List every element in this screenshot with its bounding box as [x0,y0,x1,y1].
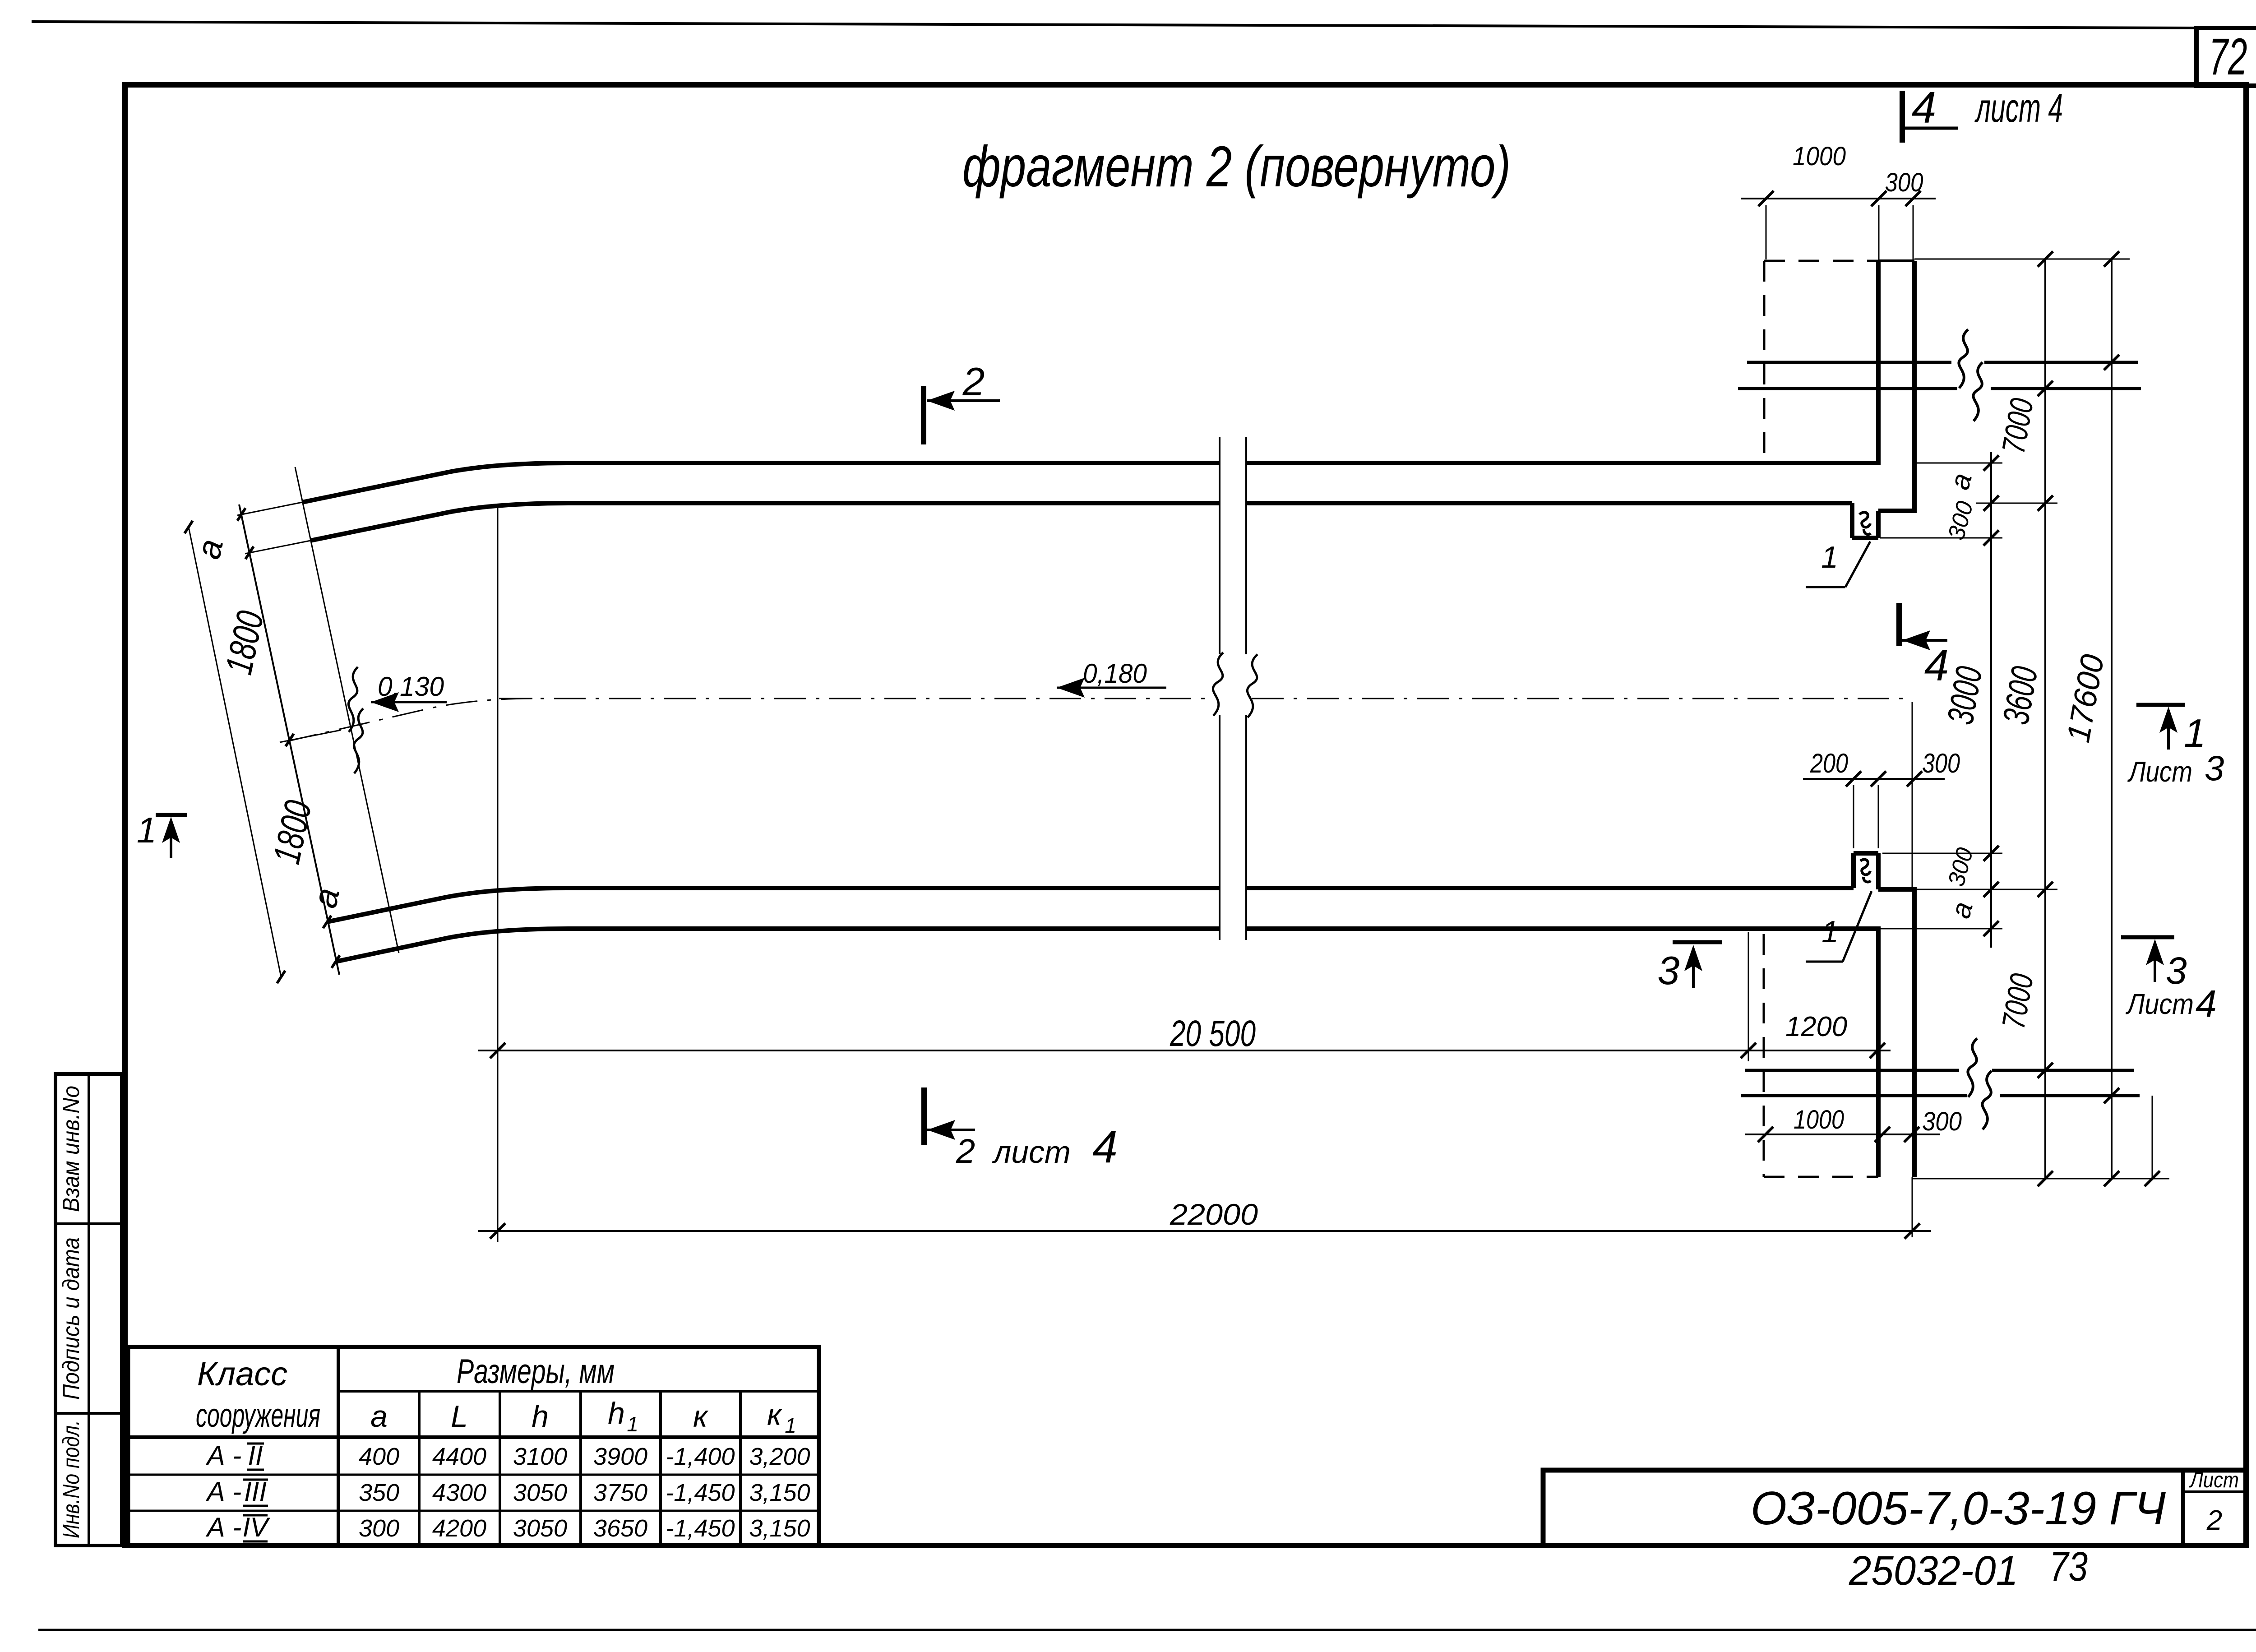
svg-text:1: 1 [137,810,157,850]
svg-text:Лист: Лист [2125,988,2194,1020]
bottom connector for dims B,C [1912,1178,2169,1180]
section marker 1 left [156,813,187,817]
svg-text:к: к [767,1397,783,1432]
svg-text:4300: 4300 [432,1479,486,1506]
channel break line left [1219,437,1220,654]
svg-text:300: 300 [359,1515,399,1542]
top transverse wall line 1 [1747,361,1951,364]
svg-text:3,150: 3,150 [749,1479,810,1506]
svg-text:3050: 3050 [513,1479,567,1506]
dashed vertical line top [1763,261,1766,453]
svg-text:73: 73 [2049,1544,2088,1590]
section marker 3 mid [1673,940,1722,944]
vertical dimension line C [2111,259,2113,1179]
svg-text:h: h [608,1396,625,1430]
connector inner top to dims A,B [1976,503,2057,504]
table subheader bottom divider [128,1435,819,1439]
svg-text:200: 200 [1810,748,1848,778]
svg-text:Инв.No подл.: Инв.No подл. [58,1420,84,1538]
connector top wall outer to dim A [1914,463,2002,464]
svg-text:-1,400: -1,400 [666,1443,735,1470]
section marker 2 top [921,386,926,444]
svg-text:1: 1 [1821,540,1838,574]
svg-text:4: 4 [1924,640,1949,690]
svg-text:Взам инв.No: Взам инв.No [58,1086,84,1212]
bottom wall outer line (bend part) [336,929,1220,962]
dashed horizontal line top [1764,260,1878,262]
dashed vertical line bottom [1763,934,1765,1177]
svg-text:II: II [248,1440,263,1471]
svg-text:3,150: 3,150 [749,1515,810,1542]
right wall left edge lower segment [1876,926,1881,1177]
top wall outer line (straight part) [1246,461,1878,465]
extension wall right edge long [1912,702,1913,887]
list cell divider [2183,1490,2246,1493]
top wall inner thin extension [245,541,310,554]
top wall inner line (straight part) [1246,501,1852,505]
table header row divider (sizes) [338,1390,819,1393]
top expansion joint notch [1850,503,1854,538]
svg-text:20 500: 20 500 [1170,1013,1256,1054]
right wall left edge upper segment [1876,261,1881,465]
svg-text:22000: 22000 [1170,1198,1258,1231]
svg-text:300: 300 [1922,1107,1962,1136]
svg-text:3100: 3100 [513,1443,567,1470]
svg-text:IV: IV [243,1512,271,1542]
svg-text:h: h [532,1399,549,1434]
title block box [1543,1470,2246,1546]
svg-text:фрагмент 2 (повернуто): фрагмент 2 (повернуто) [962,134,1511,199]
vertical dimension line A [1990,452,1992,948]
bend cut line through top wall ends [295,467,399,953]
svg-text:3: 3 [2166,949,2187,992]
svg-text:-1,450: -1,450 [666,1515,735,1542]
right wall top cap [1878,259,1914,262]
title block list divider [2181,1470,2185,1546]
bend dimension line (a,1800,1800,a) [239,504,339,975]
svg-text:3: 3 [1658,948,1680,993]
svg-text:3,200: 3,200 [749,1443,810,1470]
svg-text:1200: 1200 [1785,1011,1847,1042]
svg-text:3: 3 [2205,748,2224,788]
svg-text:1000: 1000 [1793,142,1846,171]
left long extension line [497,504,499,1242]
dashed horizontal line bottom [1764,1176,1878,1178]
table column dividers [418,1391,421,1546]
bottom wall inner line (bend part) [327,888,1220,922]
top wall inner line (bend part) [310,503,1220,541]
connector bottom wall outer to dim A [1878,928,2002,930]
stamp cell divider 1 [55,1222,122,1225]
svg-text:-1,450: -1,450 [666,1479,735,1506]
bottom notch sealant squiggle [1860,859,1871,882]
svg-text:4: 4 [1092,1122,1118,1172]
extension line 1200 left [1748,932,1749,1061]
svg-text:4200: 4200 [432,1515,486,1542]
svg-text:А -: А - [206,1440,242,1471]
marker 3 sheet 4 [2121,935,2174,939]
table class column divider [337,1347,340,1546]
svg-text:1: 1 [785,1414,796,1437]
centerline break squiggles [348,667,358,732]
svg-text:400: 400 [359,1443,399,1470]
svg-text:сооружения: сооружения [196,1397,320,1434]
svg-text:2: 2 [962,359,985,404]
connector inner bottom to dims A,B [1916,889,2057,890]
svg-text:72: 72 [2209,28,2247,86]
bend overall line with end ticks [189,527,281,977]
section marker 4 top [1900,91,1905,143]
extension notch mid [1878,785,1879,848]
centerline extension to bend dim [280,730,341,742]
marker 1 sheet 3 [2136,703,2185,707]
svg-text:4: 4 [2196,982,2217,1025]
channel break line right [1245,437,1247,654]
top wall outer line (bend part) [302,463,1220,502]
bottom wall inner line (straight part) [1246,886,1854,890]
svg-text:350: 350 [359,1479,399,1506]
svg-text:a: a [370,1399,388,1434]
svg-text:3900: 3900 [593,1443,647,1470]
top transverse wall line 2 [1738,387,1957,390]
svg-text:25032-01: 25032-01 [1849,1548,2018,1594]
svg-text:Лист: Лист [2127,755,2192,788]
centerline bend part (dash-dot) [289,699,532,741]
svg-text:2: 2 [956,1132,975,1171]
bottom band break squiggles [1968,1038,1977,1097]
table outer box [128,1347,819,1546]
table row divider 1 [128,1474,819,1476]
svg-text:3650: 3650 [593,1515,647,1542]
svg-text:Лист: Лист [2189,1468,2239,1492]
top notch sealant squiggle [1859,512,1871,534]
svg-text:1: 1 [2184,711,2206,755]
connector bottom notch ledge to dim A [1882,853,2002,854]
svg-text:300: 300 [1922,748,1960,778]
svg-text:1: 1 [1821,915,1839,949]
top connector for dims B,C [1914,259,2130,260]
svg-text:к: к [693,1399,709,1434]
svg-text:1000: 1000 [1794,1105,1844,1134]
svg-text:лист: лист [992,1134,1071,1170]
vertical dimension line B [2044,259,2046,1179]
svg-text:4400: 4400 [432,1443,486,1470]
bottom transverse wall line 2 [1741,1094,1967,1097]
svg-text:А -: А - [206,1512,242,1542]
outer top border line [32,22,2196,28]
stamp column inner divider [88,1074,90,1546]
svg-text:300: 300 [1885,168,1923,197]
svg-text:3050: 3050 [513,1515,567,1542]
svg-text:4: 4 [1912,83,1937,132]
extension lines for top dimension [1766,205,1767,259]
extension notch left [1853,785,1854,848]
sheet number box 72 [2196,28,2256,86]
top band break squiggles [1959,329,1968,388]
svg-text:III: III [244,1476,267,1507]
stamp cell divider 2 [55,1412,122,1415]
top wall outer thin extension [237,502,302,515]
section marker 4 lower [1896,603,1902,646]
connector top notch ledge to dim A [1880,537,2002,539]
svg-text:1: 1 [627,1412,638,1436]
svg-text:L: L [451,1399,468,1434]
dimension line 1000/300 bottom [1745,1134,1940,1135]
svg-text:А -: А - [206,1476,242,1507]
dimension line 1000/300 top [1741,198,1936,199]
dimension line 20500 [478,1050,1891,1051]
section marker 2 bottom [921,1087,927,1145]
bottom expansion joint notch [1851,853,1856,888]
stub extension right bottom [2152,1096,2153,1179]
right wall right edge lower segment [1912,887,1917,1177]
svg-text:0,180: 0,180 [1083,658,1147,689]
svg-text:2: 2 [2206,1505,2222,1536]
svg-text:3750: 3750 [593,1479,647,1506]
svg-text:Класс: Класс [197,1355,288,1393]
svg-text:лист 4: лист 4 [1974,86,2063,131]
left stamp column box [55,1074,122,1546]
svg-text:Размеры, мм: Размеры, мм [457,1352,615,1391]
table row divider 2 [128,1510,819,1512]
bottom wall outer line (straight part) [1246,926,1878,931]
dimension line 200/300 bottom notch [1803,778,1945,780]
dimension line 22000 [478,1230,1931,1232]
outer bottom border line [38,1629,2256,1631]
svg-text:ОЗ-005-7,0-3-19 ГЧ: ОЗ-005-7,0-3-19 ГЧ [1751,1482,2166,1535]
svg-text:Подпись и дата: Подпись и дата [58,1237,84,1400]
right wall right edge upper segment [1912,261,1917,513]
channel centerline (dash-dot) [499,698,1214,699]
bottom transverse wall line 1 [1745,1069,1959,1072]
